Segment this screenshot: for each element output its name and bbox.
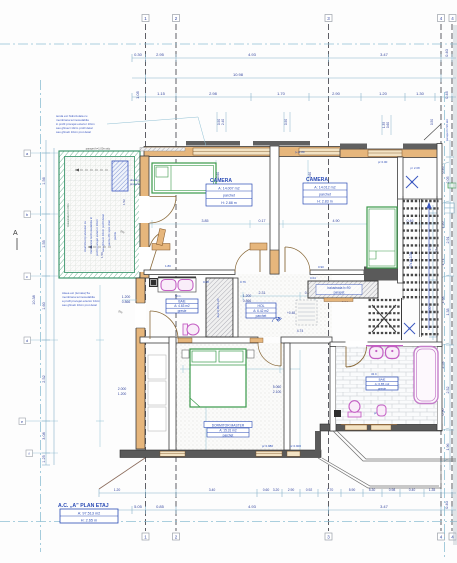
section line horizontal bottom cyan dash-dot: [0, 521, 457, 523]
big bath sink counter line: [366, 345, 403, 347]
svg-text:parapet h=90 atic: parapet h=90 atic: [445, 118, 449, 141]
svg-text:1.96: 1.96: [446, 444, 450, 451]
top dimension row 1: [132, 54, 456, 62]
svg-text:pr 0.00: pr 0.00: [378, 160, 388, 164]
toilet small bath: [183, 324, 199, 335]
top wall window left: [193, 148, 277, 155]
interior dim line rooms: [150, 220, 437, 228]
parapet strip left of top wall: [140, 148, 185, 152]
axis 4 vertical dashed: [440, 24, 442, 531]
camera2 door swing: [285, 247, 310, 272]
big bathroom tiles: [336, 347, 437, 425]
svg-text:c: c: [26, 275, 28, 279]
terrace deck fill: [64, 156, 135, 273]
bathroom top wall: [330, 342, 442, 347]
svg-text:0.17: 0.17: [259, 219, 266, 223]
camera2 door leaf: [284, 247, 286, 272]
svg-text:parapet h=1.00m atic: parapet h=1.00m atic: [86, 147, 111, 151]
lintel bar left: [186, 141, 240, 146]
left exterior wall lower: [136, 278, 145, 449]
stair lower flight cross brace: [372, 305, 396, 332]
terrace door 1 leaf and swing: [150, 197, 177, 224]
svg-text:0.76: 0.76: [240, 280, 246, 284]
svg-text:2.000: 2.000: [118, 387, 127, 391]
svg-text:0.40: 0.40: [444, 500, 449, 509]
bay roof lower-left diagonal: [99, 458, 145, 489]
bathtub: [414, 347, 438, 404]
bottom main dim texts: [134, 500, 449, 509]
axis bubble 4 top: [438, 15, 445, 22]
svg-text:3.40: 3.40: [209, 488, 216, 492]
svg-text:3.47: 3.47: [380, 52, 389, 57]
svg-text:pr 0.900: pr 0.900: [290, 444, 301, 448]
top wall window right: [299, 148, 360, 155]
camera1 door leaf: [259, 247, 261, 272]
svg-text:CAMERA: CAMERA: [306, 177, 328, 183]
stair top landing line: [398, 198, 442, 200]
svg-text:A: 6.85 m2: A: 6.85 m2: [375, 382, 390, 386]
bathroom window frames: [345, 425, 391, 430]
svg-text:0.04: 0.04: [310, 276, 316, 280]
row bubble f left: [26, 450, 58, 457]
svg-text:0.60: 0.60: [263, 488, 270, 492]
drawing frame right edge: [454, 25, 456, 545]
svg-text:A: 15.31 m2: A: 15.31 m2: [219, 429, 236, 433]
svg-text:gresie: gresie: [378, 386, 387, 390]
dashed arrow lower: [88, 246, 112, 248]
interior wall between camera rooms: [270, 146, 279, 274]
svg-text:H: 2.83 m: H: 2.83 m: [317, 200, 333, 204]
axis bubble 3 bottom: [325, 533, 332, 540]
bedroom-bathroom wall: [330, 343, 336, 431]
svg-text:3.20: 3.20: [273, 488, 280, 492]
interior dim line bedroom: [180, 365, 300, 373]
svg-text:A: 4.63 m2: A: 4.63 m2: [174, 304, 190, 308]
terrace door 2 leaf and swing: [150, 232, 163, 272]
bedroom window 3: [287, 451, 300, 456]
terrace outer border green: [59, 151, 140, 278]
svg-text:W.C.: W.C.: [175, 294, 182, 298]
stair stringer center line: [420, 199, 422, 337]
bottom small dim texts: [114, 488, 436, 492]
svg-text:H: 2.88 m: H: 2.88 m: [221, 201, 237, 205]
right dimension column: [429, 140, 454, 470]
void band label: [316, 285, 362, 295]
svg-text:(+)2.80: (+)2.80: [295, 150, 305, 154]
title block: [58, 503, 118, 523]
bay roof right upper: [333, 431, 456, 461]
radiator camera1: [152, 244, 170, 251]
wall orange insert b: [250, 338, 263, 343]
bedroom window 1: [160, 451, 185, 456]
lintel bar mid: [253, 141, 310, 146]
svg-text:A: 14.012 m2: A: 14.012 m2: [314, 186, 335, 190]
stair upper flight treads right column: [421, 201, 439, 334]
svg-text:0.40: 0.40: [444, 48, 449, 57]
svg-text:BAIE: BAIE: [379, 377, 386, 381]
interior vertical dim bathroom right: [206, 350, 300, 455]
axis bubble 4' top: [449, 15, 456, 22]
small bathroom label: [166, 294, 198, 313]
svg-text:2.90: 2.90: [332, 91, 341, 96]
svg-text:Atuminiu tip alveolar cu: Atuminiu tip alveolar cu: [83, 221, 87, 252]
svg-text:dus 0.90x1.20: dus 0.90x1.20: [216, 298, 220, 317]
svg-text:0.60: 0.60: [386, 122, 390, 128]
svg-text:A.C. „A” PLAN ETAJ: A.C. „A” PLAN ETAJ: [58, 503, 109, 509]
svg-text:0.40: 0.40: [409, 488, 416, 492]
svg-text:1.15: 1.15: [157, 91, 166, 96]
top exterior wall band: [144, 147, 364, 157]
axis A vertical left cyan dash-dot: [40, 80, 42, 552]
axis line right cyan dash-dot: [444, 92, 446, 557]
svg-text:parchet: parchet: [223, 194, 235, 198]
svg-text:1.200: 1.200: [118, 392, 127, 396]
svg-text:1.56: 1.56: [42, 177, 46, 184]
svg-text:2.52: 2.52: [446, 387, 450, 394]
dim boxes right margin: [445, 203, 455, 213]
wall rooms-hall left segment: [144, 270, 235, 275]
north cross symbol lower: [404, 323, 415, 334]
svg-text:5.060: 5.060: [273, 385, 282, 389]
dark cabinet big bath: [334, 410, 341, 417]
left dimension column line: [42, 140, 54, 465]
bathroom door leaf and swing: [346, 347, 367, 368]
void band hatched: [308, 281, 378, 298]
big bath sink 2: [386, 347, 400, 359]
svg-text:2.98: 2.98: [209, 91, 218, 96]
svg-text:pr 0.980: pr 0.980: [262, 444, 273, 448]
bathtub inner: [417, 349, 436, 401]
skylight label: [130, 178, 147, 186]
washing machine dark: [149, 278, 158, 287]
right exterior wall: [437, 144, 442, 431]
svg-text:4.93: 4.93: [248, 52, 257, 57]
svg-text:pietris: pietris: [113, 231, 117, 240]
svg-text:2.31: 2.31: [259, 291, 266, 295]
svg-text:+0.48: +0.48: [287, 311, 295, 315]
vanity counter small bath: [158, 278, 196, 292]
hall floor texture: [238, 274, 332, 337]
note mid-left leader: [122, 299, 137, 301]
left area vertical dim: [96, 285, 104, 447]
svg-text:2.91: 2.91: [446, 237, 450, 244]
camera1 wardrobe: [152, 163, 216, 193]
interior dim line hall: [240, 292, 330, 300]
svg-text:0.866: 0.866: [122, 300, 131, 304]
step wall connector: [315, 431, 321, 451]
terrace dim small: [100, 199, 126, 258]
row bubble e left: [19, 418, 58, 425]
level text labels: [165, 150, 388, 448]
svg-text:A: 14.007 m2: A: 14.007 m2: [218, 187, 239, 191]
svg-text:3.47: 3.47: [380, 504, 389, 509]
stair side rails: [402, 196, 404, 300]
svg-text:A: 97.513 m2: A: 97.513 m2: [78, 512, 101, 516]
svg-text:1.60: 1.60: [42, 302, 46, 309]
bottom dimension row main: [99, 506, 456, 514]
svg-text:1.25: 1.25: [42, 455, 46, 462]
stair upper flight treads left column: [403, 201, 420, 297]
svg-text:parchet: parchet: [256, 314, 267, 318]
window width sub-dims: [217, 119, 434, 128]
svg-text:1.70: 1.70: [327, 488, 334, 492]
dressing wall vertical: [169, 337, 176, 450]
svg-text:5.05: 5.05: [134, 504, 143, 509]
svg-text:5.90: 5.90: [349, 488, 356, 492]
axis 4' vertical dashed: [451, 24, 453, 531]
svg-text:2.40: 2.40: [221, 119, 225, 125]
svg-text:1.55: 1.55: [42, 240, 46, 247]
right dim rotated texts: [428, 167, 450, 451]
axis bubble 2 bottom: [173, 533, 180, 540]
room window sub dims vertical: [216, 172, 312, 178]
green mark right margin: [448, 183, 456, 188]
axis bubble 2 top: [173, 15, 180, 22]
svg-text:A: A: [13, 230, 18, 237]
wall block right of camera2: [364, 267, 399, 281]
svg-text:10.38: 10.38: [32, 295, 36, 305]
svg-text:1.35: 1.35: [429, 488, 436, 492]
bidet big bath: [377, 405, 386, 416]
svg-text:1.200: 1.200: [243, 294, 252, 298]
stair lower flight treads: [369, 300, 401, 333]
svg-text:2.05: 2.05: [446, 177, 450, 184]
svg-text:2.52: 2.52: [42, 375, 46, 382]
hall label: [246, 303, 276, 318]
svg-text:0.866: 0.866: [243, 299, 252, 303]
svg-text:panta 2% spre dren: panta 2% spre dren: [107, 219, 111, 246]
svg-text:b: b: [26, 213, 28, 217]
radiator camera2: [250, 243, 267, 250]
svg-text:4.90: 4.90: [333, 219, 340, 223]
bedroom bed: [190, 349, 246, 407]
left dim rotated texts: [32, 177, 46, 462]
svg-text:3.08: 3.08: [42, 432, 46, 439]
note top-left leader: [107, 117, 206, 146]
axis 3 vertical dashed: [328, 24, 330, 531]
svg-text:BAIE: BAIE: [178, 300, 185, 304]
void band sill: [324, 298, 353, 302]
svg-text:2.95: 2.95: [156, 52, 165, 57]
svg-text:1.52: 1.52: [122, 199, 126, 205]
section line horizontal top cyan dash-dot: [0, 43, 457, 45]
bathroom bottom wall: [320, 424, 442, 431]
sink 1 small bath: [161, 280, 176, 291]
top dim row 3 texts: [135, 90, 449, 99]
stair leader diagonal top right: [424, 124, 441, 140]
nightstand left: [182, 350, 189, 358]
svg-text:2.90: 2.90: [288, 488, 295, 492]
svg-text:sau ghiveci 10cm profil detal: sau ghiveci 10cm profil detal: [101, 214, 105, 252]
top dimension row 2: [132, 74, 456, 82]
camera2 room label: [303, 177, 347, 204]
svg-text:1.30: 1.30: [416, 91, 425, 96]
stair direction line blue: [427, 203, 431, 330]
north cross symbol upper: [406, 176, 418, 188]
toilet big bath: [348, 401, 361, 417]
svg-text:5.30: 5.30: [369, 488, 376, 492]
shower hatched: [206, 278, 233, 337]
row bubble b left: [24, 211, 58, 218]
sink 2 small bath: [178, 280, 193, 291]
svg-text:pr 2.08: pr 2.08: [410, 166, 420, 170]
svg-text:1.70: 1.70: [277, 91, 286, 96]
svg-text:0.08: 0.08: [203, 280, 209, 284]
terrace inner border green: [65, 157, 135, 273]
svg-text:0.98: 0.98: [389, 488, 396, 492]
bathroom door swing small: [150, 311, 178, 339]
left exterior wall upper: [140, 156, 149, 278]
bedroom window 2: [256, 451, 282, 456]
interior wall camera bottom orange part: [270, 250, 279, 274]
middle band bottom wall right part: [281, 337, 332, 343]
svg-text:1.80: 1.80: [165, 264, 171, 268]
svg-text:DORMITOR MASTER: DORMITOR MASTER: [212, 423, 245, 427]
bay roof right lower: [318, 458, 441, 488]
svg-text:HOL: HOL: [258, 304, 265, 308]
open door leaf camera1 terrace: [156, 229, 165, 246]
legend dashed box: [296, 300, 317, 325]
camera2 wardrobe: [367, 207, 397, 268]
bedroom door swing: [258, 343, 281, 366]
top wall window right seg: [368, 150, 402, 157]
svg-text:balustrada h=90: balustrada h=90: [328, 286, 351, 290]
section mark A: [13, 230, 18, 250]
svg-text:H: 2.65 m: H: 2.65 m: [81, 519, 97, 523]
wall rooms-hall right segment: [310, 270, 364, 275]
svg-text:0.90: 0.90: [284, 119, 288, 125]
svg-text:profil procejat exterior 10cm: profil procejat exterior 10cm: [95, 218, 99, 256]
svg-text:1.50: 1.50: [100, 252, 104, 258]
dashed arrow upper: [75, 169, 110, 171]
svg-text:membrana termosudabila in: membrana termosudabila in: [89, 216, 93, 254]
nightstand right: [247, 350, 254, 358]
middle band bottom wall: [140, 337, 258, 343]
svg-text:0.45: 0.45: [444, 90, 449, 99]
shower inner wall: [233, 278, 238, 337]
row bubble a left: [24, 150, 58, 157]
stacked level texts: [118, 287, 349, 396]
svg-text:10.98: 10.98: [233, 72, 244, 77]
axis bubble 1 top: [142, 15, 149, 22]
axis bubble 3 top: [325, 15, 332, 22]
svg-text:0.90: 0.90: [318, 265, 324, 269]
svg-text:0.30: 0.30: [134, 52, 143, 57]
svg-text:1.38: 1.38: [446, 309, 450, 316]
M marker: [272, 316, 282, 323]
bedroom door leaf: [280, 343, 282, 366]
lintel right b: [403, 144, 440, 149]
bedroom floor texture: [176, 343, 284, 450]
dressing shelves: [148, 355, 166, 431]
bottom dimension row small: [99, 489, 456, 497]
note top-left text: [56, 114, 95, 134]
top wall right segment: [340, 149, 440, 158]
corridor wall vertical: [284, 343, 290, 450]
row bubble d left: [24, 337, 58, 344]
svg-text:1.200: 1.200: [122, 295, 131, 299]
stair flight divider line: [401, 298, 403, 340]
row bubble c left: [24, 273, 58, 280]
axis bubble 1 bottom: [142, 533, 149, 540]
note mid-left text: [62, 291, 101, 307]
svg-text:parapet: parapet: [334, 291, 345, 295]
svg-text:4.74: 4.74: [297, 329, 304, 333]
svg-text:0.50: 0.50: [430, 119, 434, 125]
svg-text:sau ghiveb 10cm prot detal: sau ghiveb 10cm prot detal: [56, 130, 91, 134]
svg-text:parchet: parchet: [319, 193, 331, 197]
svg-text:parchet: parchet: [223, 434, 234, 438]
camera1 room label: [206, 178, 252, 206]
svg-text:CAMERA: CAMERA: [210, 178, 232, 184]
axis bubble 4' bottom: [449, 533, 456, 540]
svg-text:0.85: 0.85: [156, 504, 165, 509]
camera1 door swing: [235, 247, 260, 272]
svg-text:sau ghiveb 10cm prot detal: sau ghiveb 10cm prot detal: [62, 303, 97, 307]
svg-text:gresie: gresie: [178, 309, 187, 313]
top dim row 1 texts: [134, 48, 449, 57]
svg-text:d: d: [26, 339, 28, 343]
svg-text:e: e: [21, 420, 23, 424]
bedroom label: [204, 422, 252, 438]
top dimension row 3: [132, 93, 456, 101]
mirror line above sinks small bath: [158, 276, 196, 278]
bottom wall bedroom: [120, 450, 321, 458]
svg-text:4.93: 4.93: [248, 504, 257, 509]
terrace door opening 1: [139, 196, 150, 223]
big bathroom label: [366, 372, 398, 390]
svg-text:2.100: 2.100: [273, 390, 282, 394]
svg-text:17x18.2/28: 17x18.2/28: [409, 252, 413, 268]
big bath sink 1: [370, 347, 384, 359]
svg-text:1.20: 1.20: [114, 488, 121, 492]
svg-text:3.85: 3.85: [202, 219, 209, 223]
skylight hatched blue: [112, 161, 128, 191]
svg-text:1.20: 1.20: [379, 91, 388, 96]
lintel right a: [340, 144, 367, 149]
svg-text:1.05: 1.05: [135, 90, 140, 99]
terrace rotated annotation text: [83, 214, 117, 256]
left wall gap: [135, 303, 146, 328]
svg-text:A: 6.42 m2: A: 6.42 m2: [253, 309, 269, 313]
svg-text:balustrada h=1.00m: balustrada h=1.00m: [66, 204, 70, 227]
axis 1 vertical dashed: [145, 24, 147, 531]
terrace border band insulation: [59, 151, 140, 278]
svg-text:43.C: 43.C: [371, 372, 377, 376]
stairwell left wall: [398, 157, 404, 283]
axis bubble 4 bottom: [438, 533, 445, 540]
svg-text:0.92: 0.92: [306, 488, 313, 492]
bathroom window band: [341, 418, 397, 425]
wall orange insert a: [178, 338, 192, 343]
terrace door opening 2: [139, 247, 150, 272]
axis 2 vertical dashed: [175, 24, 177, 531]
